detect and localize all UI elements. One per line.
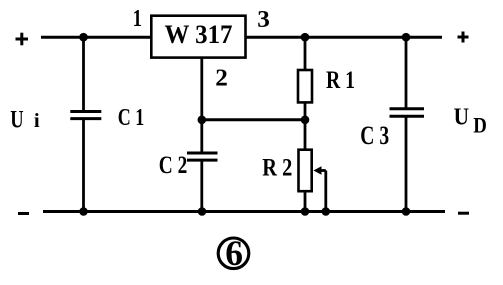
svg-text:C 1: C 1 bbox=[118, 105, 145, 131]
wire C3 upper lead bbox=[405, 37, 408, 108]
svg-text:U: U bbox=[10, 107, 23, 134]
resistor R2 potentiometer bbox=[299, 150, 312, 192]
svg-text:i: i bbox=[34, 110, 40, 132]
svg-text:2: 2 bbox=[215, 65, 228, 91]
wire bottom rail bbox=[43, 210, 445, 213]
svg-text:U: U bbox=[454, 105, 469, 131]
wire C1 lower lead bbox=[82, 120, 85, 212]
label Ui input voltage bbox=[10, 107, 40, 134]
op-amp regulator U1 W 317 box bbox=[151, 16, 245, 58]
wire R2 lower lead bbox=[304, 193, 307, 212]
wire C1 upper lead bbox=[82, 37, 85, 110]
resistor R1 bbox=[298, 70, 312, 102]
node junction top C3 bbox=[402, 33, 411, 42]
svg-text:R 1: R 1 bbox=[326, 67, 355, 94]
minus terminal right bbox=[458, 212, 469, 215]
wire R2 upper lead bbox=[304, 120, 307, 150]
wire top rail left segment bbox=[41, 36, 151, 39]
label UD output voltage bbox=[454, 105, 487, 138]
wire R1 lower lead bbox=[304, 104, 307, 120]
wire pin 2 stub bbox=[200, 58, 203, 121]
svg-text:C 3: C 3 bbox=[360, 121, 389, 150]
capacitor C2 bbox=[187, 153, 218, 160]
wire top rail right segment bbox=[246, 36, 443, 39]
node junction bottom wiper bbox=[322, 207, 331, 216]
minus terminal left bbox=[18, 212, 29, 215]
svg-text:C 2: C 2 bbox=[159, 152, 188, 179]
figure number 6 circled bbox=[218, 233, 249, 273]
node junction bottom C1 bbox=[79, 207, 88, 216]
wire R1 upper lead bbox=[304, 37, 307, 70]
wire C2 upper lead bbox=[200, 120, 203, 152]
potentiometer R2 wiper arrow bbox=[313, 166, 325, 174]
wire R2 wiper down lead bbox=[324, 171, 327, 212]
plus terminal right bbox=[458, 32, 469, 43]
svg-text:R 2: R 2 bbox=[262, 155, 292, 182]
node junction top C1 bbox=[79, 33, 88, 42]
svg-text:1: 1 bbox=[133, 6, 142, 32]
plus terminal left bbox=[16, 33, 29, 46]
capacitor C3 bbox=[390, 109, 425, 117]
svg-text:3: 3 bbox=[257, 7, 270, 33]
node junction bottom C3 bbox=[402, 207, 411, 216]
svg-text:6: 6 bbox=[225, 233, 243, 273]
wire C3 lower lead bbox=[405, 118, 408, 212]
capacitor C1 bbox=[70, 112, 101, 119]
node junction adj mid bbox=[198, 116, 207, 125]
svg-text:D: D bbox=[473, 113, 487, 138]
node junction bottom R2 bbox=[301, 207, 310, 216]
wire mid horizontal adj bbox=[202, 118, 305, 121]
node junction R1 bottom bbox=[301, 116, 310, 125]
svg-text:W 317: W 317 bbox=[165, 20, 233, 49]
node junction top R1 bbox=[301, 33, 310, 42]
node junction bottom C2 bbox=[198, 207, 207, 216]
wire C2 lower lead bbox=[200, 162, 203, 212]
